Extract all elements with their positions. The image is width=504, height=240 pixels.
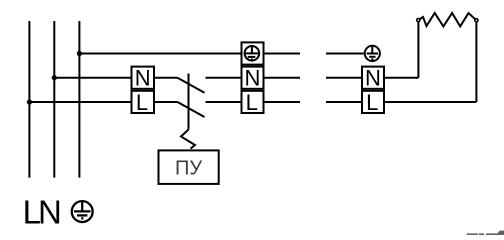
svg-text:L: L [246, 90, 258, 115]
svg-text:L: L [366, 90, 378, 115]
svg-text:N: N [365, 66, 381, 91]
svg-text:L: L [136, 90, 148, 115]
svg-text:LN: LN [23, 194, 60, 231]
svg-text:ПУ: ПУ [175, 158, 202, 180]
svg-text:N: N [135, 66, 151, 91]
svg-text:N: N [244, 66, 260, 91]
